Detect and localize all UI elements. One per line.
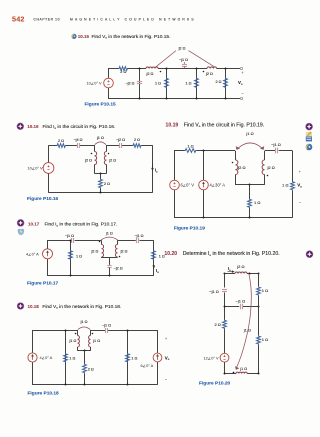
svg-text:Find Io in the circuit in Fig.: Find Io in the circuit in Fig. P10.17. xyxy=(45,222,118,228)
svg-text:Find Io in the circuit in Fig.: Find Io in the circuit in Fig. P10.16. xyxy=(43,124,116,130)
svg-text:j1 Ω: j1 Ω xyxy=(243,328,251,333)
svg-text:10.20: 10.20 xyxy=(164,251,177,257)
svg-text:j2 Ω: j2 Ω xyxy=(84,159,92,163)
svg-text:Vo: Vo xyxy=(238,80,243,86)
svg-text:Io: Io xyxy=(228,266,231,272)
svg-text:0° V: 0° V xyxy=(211,356,219,361)
svg-text:10.16: 10.16 xyxy=(27,124,39,129)
svg-text:2 Ω: 2 Ω xyxy=(88,368,94,372)
svg-text:−j1 Ω: −j1 Ω xyxy=(271,142,281,147)
svg-text:10.18: 10.18 xyxy=(28,304,40,309)
svg-text:j1 Ω: j1 Ω xyxy=(239,367,247,371)
svg-text:1 Ω: 1 Ω xyxy=(254,200,260,205)
svg-text:Io: Io xyxy=(156,268,159,274)
svg-text:10.19: 10.19 xyxy=(166,122,179,128)
svg-text:−j1 Ω: −j1 Ω xyxy=(236,298,246,303)
svg-text:6: 6 xyxy=(141,363,143,368)
svg-text:j2 Ω: j2 Ω xyxy=(237,165,245,170)
svg-text:j1 Ω: j1 Ω xyxy=(68,339,76,343)
svg-text:+: + xyxy=(165,337,167,341)
svg-text:4: 4 xyxy=(40,355,43,360)
svg-text:0° A: 0° A xyxy=(32,252,40,257)
svg-text:0° V: 0° V xyxy=(94,81,102,86)
svg-text:−j2 Ω: −j2 Ω xyxy=(116,138,125,142)
svg-text:−: − xyxy=(299,201,301,205)
svg-text:MAGNETICALLY COUPLED NETWORKS: MAGNETICALLY COUPLED NETWORKS xyxy=(70,17,196,21)
svg-text:−j1 Ω: −j1 Ω xyxy=(102,323,111,327)
svg-text:j2 Ω: j2 Ω xyxy=(267,165,275,170)
svg-text:30° A: 30° A xyxy=(215,183,225,188)
svg-text:2 Ω: 2 Ω xyxy=(215,80,221,84)
svg-text:j2 Ω: j2 Ω xyxy=(205,72,213,76)
svg-text:2 Ω: 2 Ω xyxy=(214,322,220,327)
svg-text:1 Ω: 1 Ω xyxy=(155,81,161,85)
svg-text:Figure P10.16: Figure P10.16 xyxy=(27,196,59,202)
svg-text:Figure P10.20: Figure P10.20 xyxy=(199,380,231,386)
svg-text:1 Ω: 1 Ω xyxy=(69,356,75,360)
svg-text:Determine Io in the network in: Determine Io in the network in Fig. P10.… xyxy=(183,251,280,257)
svg-text:2 Ω: 2 Ω xyxy=(58,139,64,143)
svg-text:j1 Ω: j1 Ω xyxy=(245,131,253,136)
svg-text:j2 Ω: j2 Ω xyxy=(146,72,154,76)
svg-text:Io: Io xyxy=(155,168,158,174)
svg-text:j1 Ω: j1 Ω xyxy=(105,232,113,236)
svg-text:Figure P10.15: Figure P10.15 xyxy=(85,101,117,107)
svg-text:0° V: 0° V xyxy=(186,183,194,188)
svg-text:Figure P10.17: Figure P10.17 xyxy=(27,281,59,287)
svg-text:−j1 Ω: −j1 Ω xyxy=(209,289,219,294)
svg-text:0° A: 0° A xyxy=(146,363,154,368)
svg-text:1 Ω: 1 Ω xyxy=(262,337,268,342)
svg-text:1 Ω: 1 Ω xyxy=(185,81,191,85)
svg-text:4: 4 xyxy=(210,183,213,188)
svg-text:Find Vo in the network in Fig.: Find Vo in the network in Fig. P10.18. xyxy=(42,304,121,310)
svg-text:Find Vo in the network in Fig.: Find Vo in the network in Fig. P10.15. xyxy=(92,34,171,40)
svg-text:10: 10 xyxy=(28,166,33,171)
svg-text:Vo: Vo xyxy=(165,355,170,361)
svg-text:2 Ω: 2 Ω xyxy=(104,182,110,186)
svg-text:10.17: 10.17 xyxy=(28,222,40,227)
svg-text:−j2 Ω: −j2 Ω xyxy=(114,266,123,270)
svg-text:0° A: 0° A xyxy=(45,355,53,360)
svg-text:Figure P10.19: Figure P10.19 xyxy=(174,225,206,231)
svg-text:−j4 Ω: −j4 Ω xyxy=(73,138,82,142)
svg-text:j1 Ω: j1 Ω xyxy=(80,320,88,324)
svg-text:−j1 Ω: −j1 Ω xyxy=(65,234,74,238)
svg-text:0° V: 0° V xyxy=(35,166,43,171)
svg-text:1 Ω: 1 Ω xyxy=(159,254,165,258)
svg-text:4: 4 xyxy=(26,252,29,257)
svg-text:j1 Ω: j1 Ω xyxy=(96,136,104,140)
svg-text:Vo: Vo xyxy=(297,183,302,189)
svg-text:10: 10 xyxy=(87,81,92,86)
svg-text:j2 Ω: j2 Ω xyxy=(108,159,116,163)
svg-text:CHAPTER 10: CHAPTER 10 xyxy=(34,17,61,21)
svg-text:12: 12 xyxy=(204,356,208,361)
svg-text:j1 Ω: j1 Ω xyxy=(92,339,100,343)
svg-text:2 Ω: 2 Ω xyxy=(134,138,140,142)
svg-text:6: 6 xyxy=(181,183,184,188)
svg-text:542: 542 xyxy=(12,15,25,24)
svg-text:2 Ω: 2 Ω xyxy=(120,70,126,74)
svg-text:1 Ω: 1 Ω xyxy=(187,143,193,148)
svg-text:+: + xyxy=(299,170,301,174)
svg-text:Figure P10.18: Figure P10.18 xyxy=(28,390,60,396)
svg-text:−j1 Ω: −j1 Ω xyxy=(134,234,143,238)
svg-text:j2 Ω: j2 Ω xyxy=(90,249,98,253)
svg-text:+: + xyxy=(241,71,243,75)
svg-text:−: − xyxy=(165,378,167,382)
svg-text:1 Ω: 1 Ω xyxy=(262,288,268,293)
svg-text:j2 Ω: j2 Ω xyxy=(236,264,244,269)
svg-text:−j2 Ω: −j2 Ω xyxy=(125,82,134,86)
svg-text:1 Ω: 1 Ω xyxy=(76,254,82,258)
svg-text:10.15: 10.15 xyxy=(78,34,90,39)
svg-text:1 Ω: 1 Ω xyxy=(131,356,137,360)
svg-text:−j1 Ω: −j1 Ω xyxy=(179,58,188,62)
svg-text:Find Vo in the circuit in Fig.: Find Vo in the circuit in Fig. P10.19. xyxy=(184,122,265,128)
svg-text:j2 Ω: j2 Ω xyxy=(178,46,186,50)
svg-text:j2 Ω: j2 Ω xyxy=(120,249,128,253)
svg-text:−: − xyxy=(241,92,243,96)
svg-text:1 Ω: 1 Ω xyxy=(282,183,288,188)
